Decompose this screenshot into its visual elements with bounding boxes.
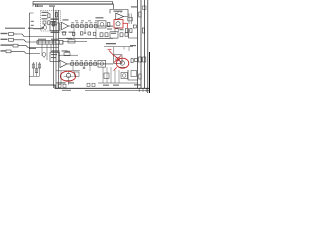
wire J103 to bus: [21, 46, 59, 48]
capacitor C152: [143, 57, 146, 62]
resistor R114: [90, 24, 93, 27]
label CH2 t2: [62, 50, 68, 51]
wire rail V1: [137, 0, 139, 88]
highlight red circle Q206: [116, 58, 128, 68]
label U102 name: [114, 11, 123, 12]
capacitor C132: [125, 33, 128, 36]
wire CH2 mid line: [56, 70, 80, 72]
label rail top text: [131, 6, 137, 7]
wire predriver: [110, 25, 113, 27]
wire CH2 to rails: [128, 70, 138, 80]
connector J104 label: [1, 50, 6, 51]
resistor R123: [115, 29, 118, 32]
capacitor C111: [84, 28, 86, 33]
resistor R113: [85, 24, 88, 27]
highlight red wire right: [123, 22, 128, 24]
label CH2 row t1: [76, 59, 79, 62]
label Q102: [96, 17, 104, 18]
wire CH1 out to rails: [129, 28, 138, 38]
label q row t2: [113, 85, 119, 86]
connector CN201 body: [37, 41, 63, 45]
box Q208: [121, 73, 128, 79]
resistor R242: [63, 84, 66, 87]
label R110: [71, 21, 74, 24]
pin 5 CN201: [51, 41, 53, 45]
wire bottom bus main: [29, 85, 150, 88]
resistor R151: [139, 12, 141, 17]
highlight red circle Q203: [60, 71, 75, 81]
label bias text: [51, 21, 57, 22]
label CH2 row t5: [94, 59, 97, 62]
label CH1 row2 t2: [62, 32, 67, 33]
resistor R132: [72, 32, 75, 35]
wire left col join: [29, 76, 39, 78]
label CH1 t1: [42, 12, 49, 13]
op-amp U101: [62, 22, 69, 29]
resistor R223: [131, 59, 133, 63]
wire J101 to bus: [17, 34, 54, 37]
resistor R251: [139, 74, 141, 79]
box input stage CH1 dashed: [41, 11, 61, 32]
pin 1 CN201: [38, 41, 40, 45]
label top bus text B: [49, 5, 55, 6]
wire vpair A: [128, 14, 130, 25]
label U101 name: [63, 19, 69, 20]
resistor R105 on bus: [52, 22, 54, 27]
wire left col A: [33, 62, 35, 76]
label CH1 upper ticks: [75, 20, 78, 21]
capacitor C131: [88, 32, 91, 35]
label CH2 head: [51, 50, 60, 51]
wire bus B: [55, 10, 57, 88]
label left marks: [31, 21, 34, 22]
capacitor C153: [143, 6, 147, 10]
label mid B202: [65, 51, 70, 52]
wire pin drop A: [41, 44, 43, 56]
wire rail V3: [144, 0, 146, 88]
label R115: [94, 21, 97, 24]
resistor R241: [58, 84, 61, 87]
transistor Q201: [42, 53, 46, 57]
pin 7 CN201: [58, 41, 60, 45]
wire row drops CH1: [73, 28, 75, 39]
label CH1 t2: [42, 15, 47, 16]
resistor R102: [48, 21, 50, 25]
label bottom t1: [57, 82, 66, 83]
op-amp U102 triangle: [116, 13, 124, 20]
resistor R133: [80, 32, 83, 35]
label CH2 row t0: [71, 59, 74, 62]
highlight red box U102: [114, 20, 123, 28]
resistor R152: [142, 28, 144, 33]
connector J103 label: [1, 44, 13, 45]
resistor R215: [94, 62, 97, 65]
resistor R134: [100, 33, 103, 37]
label CH1 t3: [42, 18, 48, 19]
resistor R233: [38, 64, 41, 68]
connector J104: [6, 50, 11, 53]
transistor Q206: [120, 61, 124, 65]
wire bus A: [53, 7, 55, 88]
wire left col B: [36, 62, 38, 76]
resistor R118: [108, 23, 110, 27]
connector J102 label: [1, 39, 8, 40]
wire U102 feedback loop: [110, 10, 128, 17]
op-amp U201: [60, 60, 67, 67]
label R112: [81, 21, 84, 24]
connector J103: [13, 44, 18, 47]
capacitor C121: [133, 25, 136, 28]
wire Q203 drops: [60, 71, 62, 85]
capacitor C101: [43, 21, 46, 24]
wire top bus lower: [33, 3, 114, 5]
wire bottom bus second: [85, 89, 150, 91]
label q row t1: [103, 85, 109, 86]
pin 8 CN201: [62, 41, 64, 45]
label top bus text A: [35, 5, 43, 6]
wire U102 top pins: [117, 11, 119, 13]
label R114: [90, 21, 93, 24]
label mid B201: [66, 38, 72, 39]
wire pin drop B: [46, 44, 48, 60]
resistor R112: [81, 24, 84, 27]
label CH1 row2 head: [51, 32, 60, 33]
transistor Q101: [43, 26, 47, 30]
label B+ text: [51, 18, 59, 20]
transistor Q102: [100, 23, 104, 27]
resistor R211: [75, 62, 78, 65]
wire left vertical: [28, 13, 30, 85]
wire rail V2: [140, 0, 142, 88]
wire right edge dark: [149, 52, 151, 93]
wire bus ticks: [35, 4, 37, 7]
resistor R137: [93, 32, 96, 35]
resistor R121: [125, 29, 127, 33]
wire J102 to bus: [17, 40, 56, 42]
wire U101 out: [69, 25, 114, 27]
label R118 area: [107, 29, 112, 30]
wire pin drop C: [50, 44, 52, 50]
label R113: [85, 21, 88, 24]
label CH2 row t2: [80, 59, 83, 62]
label under header: [29, 48, 36, 49]
label R123: [120, 29, 124, 30]
resistor R101: [48, 14, 50, 18]
label Q205: [106, 43, 116, 44]
box relay RY201: [98, 60, 106, 67]
label R111: [76, 21, 79, 24]
box Q207: [104, 73, 109, 79]
box CH2 part: [75, 72, 80, 77]
resistor R136: [120, 33, 123, 37]
resistor R232: [35, 69, 38, 73]
capacitor C241: [87, 83, 90, 86]
box relay RY101: [110, 32, 118, 38]
capacitor C221: [135, 59, 138, 62]
pin 3 CN201: [45, 41, 47, 45]
resistor R131: [63, 32, 66, 35]
capacitor C211: [83, 66, 85, 68]
capacitor C242: [92, 83, 95, 86]
label bottom t2: [68, 82, 74, 83]
resistor R135: [105, 33, 108, 37]
wire row drops CH2: [72, 66, 74, 71]
resistor R122: [130, 29, 132, 33]
resistor R214: [89, 62, 92, 65]
label under box: [33, 28, 43, 29]
label bottom t4: [134, 84, 141, 85]
wire top bus upper: [33, 0, 113, 2]
connector J101 label: [1, 33, 8, 34]
transistor Q203: [66, 73, 70, 77]
wire drops cluster: [102, 67, 104, 83]
box Q209: [131, 71, 137, 77]
wire left vertical tick: [29, 12, 33, 14]
wire top bus drop: [113, 4, 115, 9]
box output stage Q205: [114, 55, 123, 64]
wire CH1 row2 line: [59, 37, 114, 39]
box mid B202: [64, 53, 70, 56]
label CH1 row2 t3: [69, 32, 74, 33]
connector J101: [9, 33, 14, 36]
resistor R106 on bus: [55, 13, 57, 18]
pin 2 CN201: [41, 41, 43, 45]
highlight red tail: [114, 67, 117, 70]
transistor Q103: [116, 22, 120, 26]
label bottom t3: [62, 90, 71, 91]
wire U201 out: [67, 63, 113, 65]
box bias network CH2: [50, 53, 60, 62]
wire rail feet: [138, 88, 140, 92]
resistor R111: [76, 24, 79, 27]
box driver Q102: [98, 21, 106, 28]
capacitor C151: [139, 57, 142, 62]
label rail mid text: [130, 45, 136, 46]
resistor R231: [32, 64, 35, 68]
wire top bus right corner: [112, 1, 114, 4]
pin 6 CN201: [55, 41, 57, 45]
box bias network CH1: [50, 23, 60, 31]
box snubber: [128, 18, 133, 21]
wire rail V4: [147, 0, 149, 93]
resistor R110: [71, 24, 74, 27]
pin 4 CN201: [48, 41, 50, 45]
wire Q205 top: [113, 47, 115, 55]
resistor R213: [85, 62, 88, 65]
highlight red tick: [108, 48, 112, 50]
label CH2 row t4: [89, 59, 92, 62]
label board name: [5, 28, 25, 29]
label CH2 row t3: [85, 59, 88, 62]
highlight red scribble: [109, 51, 122, 63]
wire vpair B: [130, 14, 132, 25]
wire bus C: [58, 10, 60, 88]
wire top bus left end: [32, 1, 34, 6]
wire CH2 bottom line: [98, 82, 137, 84]
resistor R210: [71, 62, 74, 65]
wire J104 to bus: [15, 51, 40, 53]
resistor R115: [94, 24, 97, 27]
box mid B201: [68, 40, 75, 43]
resistor R212: [80, 62, 83, 65]
label CN201: [38, 39, 46, 40]
connector J102: [9, 38, 14, 41]
wire left col C: [39, 62, 41, 76]
